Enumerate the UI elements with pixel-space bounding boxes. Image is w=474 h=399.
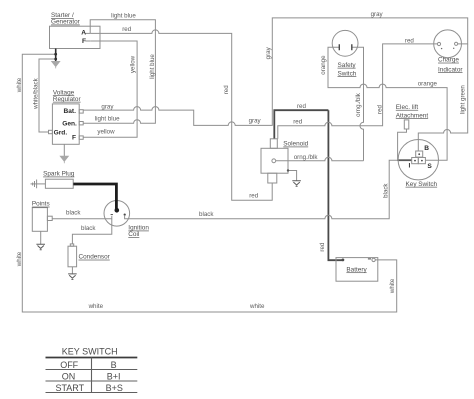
svg-text:light green: light green [459,85,466,114]
svg-text:red: red [122,26,132,33]
condensor pin [70,244,73,246]
svg-text:red: red [319,242,326,252]
solenoid box [261,148,288,173]
svg-text:Solenoid: Solenoid [283,141,308,148]
svg-text:Points: Points [32,201,50,208]
svg-text:red: red [223,85,230,95]
wire black: coil minus stem down left to condensor [72,219,111,244]
key switch B terminal square [416,151,423,157]
svg-text:black: black [81,225,96,232]
wire F pin stub (yellow net start) [86,40,91,42]
ground arrow under S/G [52,61,60,68]
battery minus mark [368,258,371,260]
wire red thick: battery vertical down to battery + [328,110,342,260]
svg-text:yellow: yellow [130,55,137,73]
svg-text:Switch: Switch [338,70,357,77]
key switch S terminal square [418,158,425,164]
charge indicator terminal dots [441,48,442,49]
svg-text:gray: gray [371,11,384,18]
svg-text:S: S [427,163,432,170]
svg-text:light blue: light blue [111,12,136,19]
svg-text:Attachment: Attachment [396,112,429,119]
node junction dots [54,53,57,56]
svg-text:Condensor: Condensor [79,254,111,261]
wire red-1 thick top: solenoid top pin to battery vertical [274,110,328,139]
safety switch terminal bars [339,44,352,50]
battery box [336,258,378,282]
ignition coil plus dot [124,214,126,216]
elec lift fuse [404,120,409,129]
ground (condensor) [68,274,77,280]
pin Bat. [79,110,83,113]
pin F [79,136,83,139]
svg-text:gray: gray [101,103,114,110]
svg-text:white: white [16,77,23,93]
spark plug tip wire [31,183,46,185]
wire points ground stem [40,231,42,244]
svg-text:red: red [249,193,259,200]
svg-text:red: red [405,38,415,45]
wire yellow: F terminal right, down, to F of voltage regulator [83,41,137,137]
ground (solenoid) [292,181,301,187]
points box [32,208,47,232]
pin Gen. [79,122,83,125]
svg-text:red: red [377,104,384,114]
svg-text:Indicator: Indicator [438,66,463,73]
battery plus dot [342,259,345,262]
wire black: points to ignition coil minus [52,216,112,219]
svg-text:Battery: Battery [346,266,367,273]
svg-text:B+S: B+S [106,383,123,393]
spark plug tip bars [33,180,37,189]
svg-text:F: F [82,38,86,45]
wire condensor ground stem [71,267,73,274]
wire gray: Bat. of VR to charge indicator right terminal [83,18,467,126]
battery minus terminal circle [372,258,375,261]
wire white/black: S/G junction to Grd of VR [39,59,56,132]
safety switch circle [332,30,358,56]
key switch I terminal square [412,158,419,164]
wire key switch I terminal thick segment [397,159,411,161]
svg-text:black: black [199,211,214,218]
svg-text:A: A [81,30,86,37]
svg-text:gray: gray [265,46,272,59]
ignition coil circle [104,201,130,227]
svg-text:gray: gray [249,118,262,125]
wire orng./blk vertical: safety switch right terminal down to solenoid wire [352,47,364,161]
key switch circle [398,140,438,180]
svg-text:orange: orange [320,55,327,75]
svg-text:F: F [72,134,76,141]
condensor body [68,246,77,267]
svg-text:Grd.: Grd. [54,130,68,137]
wire light green / B wire: key switch B up, right, to charge indicator right [418,44,467,151]
wire A pin stub [85,32,90,34]
svg-text:light blue: light blue [95,116,120,123]
svg-text:red: red [293,119,303,126]
svg-text:Key Switch: Key Switch [406,181,438,188]
svg-text:B+I: B+I [107,372,121,382]
svg-text:orng./blk: orng./blk [355,92,362,117]
svg-text:black: black [383,183,390,198]
svg-text:white: white [16,251,23,267]
svg-text:white: white [88,303,104,310]
wire spark plug to coil (thick black) [73,184,116,209]
wire solenoid ground [288,171,297,181]
svg-text:Safety: Safety [338,62,357,69]
node solenoid ground junction dot [287,169,289,171]
wire red: A terminal right, down, to solenoid bottom pin [90,30,272,200]
svg-text:orng./blk: orng./blk [294,154,319,161]
ignition coil minus [111,214,113,216]
svg-text:red: red [297,103,307,110]
wire orange: safety switch left terminal to key switch S [328,47,447,160]
svg-text:Coil: Coil [128,231,139,238]
wire black: key switch I left, down, long run left to ignition coil + [125,160,412,219]
svg-text:Regulator: Regulator [53,96,82,103]
svg-text:black: black [66,209,81,216]
svg-text:Bat.: Bat. [64,108,77,115]
svg-text:B: B [424,145,429,152]
points pin [47,216,52,220]
pin Grd. [49,130,53,133]
svg-text:Charge: Charge [438,57,459,64]
svg-text:white/black: white/black [33,77,40,110]
solenoid circle terminal [272,159,276,163]
wire white: S/G junction to left border, bottom, battery minus [22,54,396,312]
svg-text:OFF: OFF [60,360,78,370]
svg-text:Elec. lift: Elec. lift [396,104,419,111]
svg-text:yellow: yellow [97,129,115,136]
charge indicator circle [434,30,462,58]
svg-text:Generator: Generator [51,19,81,26]
ground arrow under voltage regulator [60,156,68,163]
svg-text:orange: orange [418,80,438,87]
node coil center dot [115,208,120,213]
svg-text:white: white [249,303,265,310]
charge indicator right terminal [455,42,458,45]
svg-text:ON: ON [62,372,76,382]
svg-text:B: B [111,360,117,370]
svg-text:Spark Plug: Spark Plug [43,171,75,178]
spark plug body [45,179,73,188]
key switch terminal dots [418,153,420,155]
starter/generator box [50,26,101,48]
wire red-2: solenoid top pin to charge indicator left terminal [278,44,438,139]
key switch table lines [46,358,138,393]
wire light blue: A terminal up and right to Gen of voltage regulator [83,20,155,123]
svg-text:I: I [409,163,411,170]
wire VR ground stem [63,144,65,156]
solenoid top pin [270,139,277,149]
wire S/G junction vertical (dark) [55,49,57,62]
charge indicator left terminal [437,42,440,45]
svg-text:START: START [55,383,84,393]
svg-text:KEY SWITCH: KEY SWITCH [62,346,118,356]
wire orng./blk horizontal: solenoid circle terminal right [276,157,364,161]
svg-text:white: white [389,278,396,294]
ground (points) [36,244,45,250]
voltage regulator box [52,104,79,144]
svg-text:Gen.: Gen. [62,120,77,127]
wire elec lift: fuse down to I wire [398,129,407,160]
svg-text:light blue: light blue [149,54,156,79]
solenoid bottom pin [268,173,277,183]
